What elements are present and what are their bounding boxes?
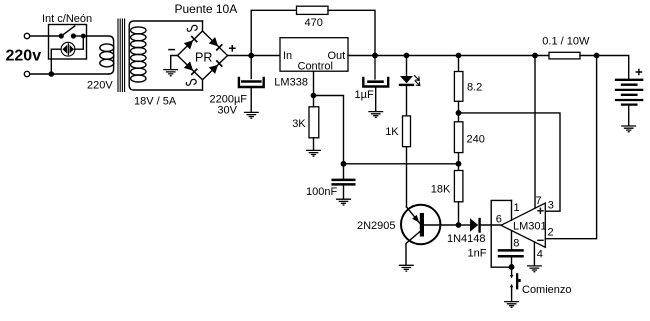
svg-text:3: 3 xyxy=(548,200,554,212)
wire control to 100nF column xyxy=(314,96,344,164)
ground battery xyxy=(622,126,636,132)
node bridge output junction xyxy=(249,53,253,57)
wire 240 to bus xyxy=(458,153,460,171)
transistor Q1 2N2905 circle xyxy=(401,205,440,244)
node switch output junction xyxy=(82,34,85,37)
bridge diode top-left xyxy=(184,37,197,50)
svg-text:2N2905: 2N2905 xyxy=(357,220,396,232)
bridge diode bottom-left xyxy=(184,61,197,74)
resistor R 18K xyxy=(454,171,463,202)
wire C1 to ground xyxy=(250,88,252,112)
ground pin4 xyxy=(528,266,542,272)
wire C2 to ground xyxy=(375,88,377,112)
wire secondary top to bridge xyxy=(202,21,204,31)
label minus input xyxy=(538,239,543,241)
pin 1 wire xyxy=(511,200,513,220)
wire 100nF top xyxy=(343,164,345,179)
switch Comienzo wire top xyxy=(511,267,513,276)
neon lamp electrode right xyxy=(70,45,74,54)
pin 7 wire xyxy=(534,56,536,209)
diode LED D1 arrows xyxy=(415,76,420,86)
pin 2 wire xyxy=(545,56,596,239)
squiggle AC top xyxy=(187,25,197,31)
pin 4 wire xyxy=(533,242,535,266)
ground C2 xyxy=(369,112,383,118)
node control junction xyxy=(311,93,315,97)
switch S1 lever xyxy=(61,26,75,36)
node Out junction xyxy=(373,53,377,57)
switch Comienzo contact bottom arrow xyxy=(510,284,514,287)
wire 8.2 to node xyxy=(458,101,460,122)
svg-text:2: 2 xyxy=(548,227,554,239)
node comp junction xyxy=(509,265,513,269)
wire LED top xyxy=(406,56,408,77)
bridge rectifier PR diamond xyxy=(178,31,228,80)
wire battery to ground xyxy=(628,106,630,126)
svg-text:In: In xyxy=(283,50,292,62)
diode D2 1N4148 xyxy=(470,218,478,232)
transistor Q1 base bar xyxy=(420,213,424,237)
node divider junction xyxy=(456,111,460,115)
switch S1 contact right xyxy=(72,34,76,38)
svg-text:Puente 10A: Puente 10A xyxy=(175,2,238,16)
switch Comienzo wire bottom xyxy=(511,287,513,302)
wire 470 rail right down to Out node xyxy=(328,10,375,55)
diode D2 cathode bar xyxy=(478,219,480,232)
switch box xyxy=(49,25,87,60)
wire bus to 18K column xyxy=(344,163,459,165)
svg-text:18K: 18K xyxy=(431,184,451,196)
svg-text:1K: 1K xyxy=(385,126,399,138)
wire 100nF to ground xyxy=(343,186,345,199)
node 100nF junction xyxy=(341,162,345,166)
transistor Q1 base wire xyxy=(424,224,459,226)
wire LED to 1K xyxy=(406,86,408,116)
svg-text:1µF: 1µF xyxy=(355,89,374,101)
node base junction xyxy=(456,223,460,227)
capacitor C1 2200uF top plate xyxy=(242,80,260,83)
svg-text:240: 240 xyxy=(467,134,485,146)
wire secondary bottom to bridge xyxy=(202,80,204,90)
bridge diode bottom-right xyxy=(209,61,222,74)
diode LED D1 xyxy=(400,76,413,83)
terminal top input xyxy=(24,33,29,38)
label battery plus xyxy=(636,69,641,74)
svg-text:3K: 3K xyxy=(292,118,306,130)
svg-text:1: 1 xyxy=(514,202,520,214)
terminal bottom input xyxy=(24,71,29,76)
node LED junction xyxy=(404,53,408,57)
bridge diode top-right xyxy=(209,37,222,50)
wire control pin xyxy=(313,71,315,95)
transistor Q1 emitter lead xyxy=(407,207,421,224)
battery B1 plates xyxy=(616,80,642,105)
diode LED D1 cathode bar xyxy=(400,84,413,86)
transformer T1 core xyxy=(118,19,125,92)
transformer T1 primary winding xyxy=(100,44,114,52)
svg-text:8.2: 8.2 xyxy=(467,82,482,94)
switch Comienzo contact top arrow xyxy=(510,275,514,278)
label plus bridge xyxy=(230,46,235,51)
wire 1K to transistor xyxy=(406,147,408,207)
node pin7 junction xyxy=(533,53,537,57)
capacitor C 100nF xyxy=(333,180,355,185)
wire bottom rail input to transformer primary xyxy=(30,73,109,75)
ground 3K xyxy=(307,150,321,156)
neon lamp electrode left xyxy=(62,45,67,54)
ground bridge xyxy=(164,70,178,76)
transistor Q1 emitter arrow xyxy=(412,215,419,223)
ground transistor xyxy=(400,265,414,271)
wire 1nF to node xyxy=(511,258,513,268)
svg-text:Control: Control xyxy=(298,60,333,72)
svg-text:470: 470 xyxy=(305,17,323,29)
wire bridge minus to ground xyxy=(171,56,178,70)
switch Comienzo button nub xyxy=(518,279,520,282)
svg-text:1nF: 1nF xyxy=(468,248,487,260)
svg-text:8: 8 xyxy=(513,238,519,250)
wire Out rail xyxy=(348,55,549,57)
wire neon right up to switch node xyxy=(75,36,84,49)
transformer T1 secondary outline xyxy=(129,21,202,90)
ground 100nF xyxy=(337,199,351,205)
wire 3K to ground xyxy=(313,138,315,150)
capacitor C2 1uF wire xyxy=(374,56,376,80)
svg-text:0.1 / 10W: 0.1 / 10W xyxy=(542,35,590,47)
neon lamp electrode center bar xyxy=(67,44,69,55)
svg-text:100nF: 100nF xyxy=(306,186,337,198)
label minus bridge xyxy=(169,49,174,51)
resistor R 0.1 10W xyxy=(549,52,580,59)
transistor Q1 collector lead xyxy=(406,232,420,266)
svg-text:6: 6 xyxy=(496,214,502,226)
node neon bottom junction xyxy=(49,72,53,76)
ground Comienzo xyxy=(505,302,519,308)
svg-text:18V / 5A: 18V / 5A xyxy=(134,96,177,108)
comp loop box xyxy=(491,200,511,267)
capacitor C2 1uF top plate xyxy=(369,80,383,83)
wire up to 470 rail left xyxy=(251,10,296,55)
capacitor C2 1uF bottom cup xyxy=(363,78,388,87)
squiggle AC bottom xyxy=(186,79,196,85)
resistor R 240 xyxy=(454,122,463,153)
pin 8 wire xyxy=(511,231,513,249)
wire 8.2 top xyxy=(458,56,460,72)
svg-text:7: 7 xyxy=(536,195,542,207)
capacitor C1 2200uF wire xyxy=(250,56,252,79)
resistor R 8.2 xyxy=(454,72,463,102)
transformer T1 secondary winding xyxy=(131,27,146,34)
svg-text:1N4148: 1N4148 xyxy=(447,233,486,245)
wire switch to node xyxy=(73,35,86,37)
resistor R 3K wire top xyxy=(313,96,315,107)
resistor R 3K xyxy=(309,107,319,138)
resistor R 470 xyxy=(297,6,329,14)
wire top input to switch xyxy=(30,35,62,37)
svg-text:220v: 220v xyxy=(6,48,42,65)
wire diode to op-amp output xyxy=(481,224,501,226)
wire neon left to bottom rail xyxy=(51,49,61,74)
node bus right junction xyxy=(456,162,460,166)
capacitor C 1nF xyxy=(499,250,523,256)
wire base node to diode xyxy=(459,224,471,226)
wire shunt to battery xyxy=(580,56,629,79)
svg-text:220V: 220V xyxy=(87,80,113,92)
switch Comienzo button bar xyxy=(516,273,518,289)
svg-text:30V: 30V xyxy=(217,105,237,117)
neon lamp NE1 xyxy=(61,42,75,56)
svg-text:Comienzo: Comienzo xyxy=(522,284,572,296)
wire divider to pin3 xyxy=(459,113,561,211)
svg-text:4: 4 xyxy=(537,249,543,261)
capacitor C1 2200uF bottom cup xyxy=(239,78,264,87)
node 8.2 top junction xyxy=(456,53,460,57)
ground C1 xyxy=(245,112,259,118)
wire 18K to base node xyxy=(458,202,460,225)
svg-text:LM301: LM301 xyxy=(513,221,547,233)
op-amp U2 LM301 triangle xyxy=(501,203,545,247)
svg-text:Int c/Neón: Int c/Neón xyxy=(42,13,92,25)
node pin2 junction xyxy=(594,53,598,57)
regulator U1 LM338 box xyxy=(280,38,348,71)
svg-text:PR: PR xyxy=(195,51,212,65)
wire bridge plus to input node xyxy=(228,55,281,57)
resistor R 1K xyxy=(403,116,411,147)
label plus input xyxy=(538,208,543,213)
svg-text:LM338: LM338 xyxy=(274,77,308,89)
switch S1 contact left xyxy=(59,34,63,38)
wire switch box to transformer primary top xyxy=(87,36,114,74)
